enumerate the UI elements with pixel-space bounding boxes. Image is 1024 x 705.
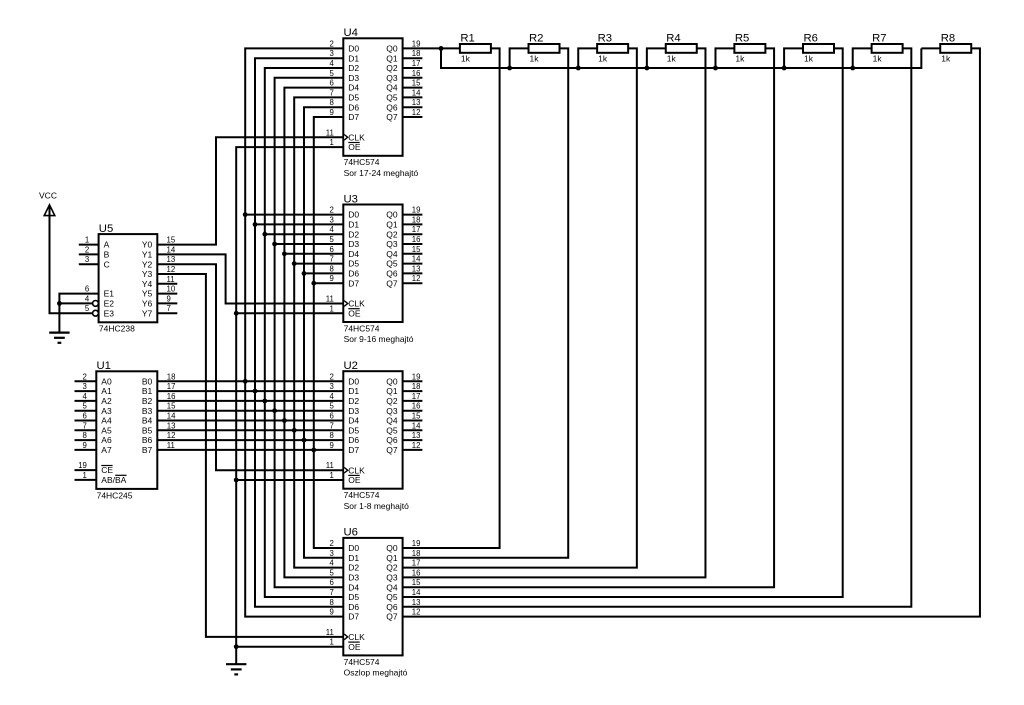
svg-text:Sor 17-24 meghajtó: Sor 17-24 meghajtó bbox=[344, 168, 419, 178]
svg-text:9: 9 bbox=[330, 441, 334, 450]
svg-text:Y1: Y1 bbox=[142, 250, 153, 260]
svg-text:14: 14 bbox=[412, 588, 421, 597]
svg-text:Y2: Y2 bbox=[142, 259, 153, 269]
wire U1.B1 to U2.D1 bbox=[157, 390, 343, 392]
U1 pin 8 (A6) stub, name and number bbox=[75, 439, 97, 441]
svg-text:16: 16 bbox=[412, 235, 421, 244]
svg-text:17: 17 bbox=[412, 392, 421, 401]
svg-text:11: 11 bbox=[326, 628, 334, 637]
svg-text:12: 12 bbox=[412, 441, 421, 450]
svg-text:D4: D4 bbox=[348, 249, 359, 259]
wire U5.Y0 to U4.CLK bbox=[157, 137, 343, 244]
svg-text:2: 2 bbox=[330, 39, 334, 48]
svg-text:19: 19 bbox=[78, 461, 87, 470]
svg-text:15: 15 bbox=[167, 236, 176, 245]
svg-text:8: 8 bbox=[330, 98, 334, 107]
svg-text:Y0: Y0 bbox=[142, 240, 153, 250]
resistor R4 body bbox=[666, 44, 697, 53]
wire VCC to U5.E3 bbox=[50, 206, 93, 313]
svg-text:R1: R1 bbox=[460, 33, 474, 45]
svg-text:17: 17 bbox=[167, 382, 176, 391]
svg-text:13: 13 bbox=[412, 98, 421, 107]
junction net D7 at U3.D7 bbox=[311, 281, 316, 286]
wire bus stub to R4 bbox=[647, 48, 666, 68]
svg-text:4: 4 bbox=[85, 294, 90, 303]
svg-text:Q1: Q1 bbox=[386, 386, 398, 396]
svg-text:13: 13 bbox=[167, 255, 176, 264]
junction net D4 at U1.B4 bbox=[282, 418, 287, 423]
svg-text:U5: U5 bbox=[99, 223, 113, 235]
junction net D2 at U3.D2 bbox=[262, 232, 267, 237]
U1 pin 7 (A5) stub, name and number bbox=[75, 429, 97, 431]
wire U3.D6 tap bbox=[304, 272, 343, 274]
wire U1.B4 to U2.D4 bbox=[157, 420, 343, 422]
svg-text:1k: 1k bbox=[804, 53, 814, 63]
U5 E2 inversion bubble bbox=[93, 301, 99, 307]
svg-text:19: 19 bbox=[412, 39, 421, 48]
svg-text:D3: D3 bbox=[348, 239, 359, 249]
svg-text:D2: D2 bbox=[348, 63, 359, 73]
svg-text:Q7: Q7 bbox=[386, 445, 398, 455]
svg-text:CE: CE bbox=[101, 465, 113, 475]
wire U1.B3 to U2.D3 bbox=[157, 410, 343, 412]
svg-text:A: A bbox=[104, 240, 110, 250]
U2 Q2 stub bbox=[403, 400, 423, 402]
wire U1.B0 to U2.D0 bbox=[157, 380, 343, 382]
svg-text:U2: U2 bbox=[344, 360, 358, 372]
svg-text:12: 12 bbox=[412, 274, 421, 283]
svg-text:9: 9 bbox=[330, 274, 334, 283]
svg-text:4: 4 bbox=[330, 392, 335, 401]
net D0 wire U4.D0 - bus vertical - U6.D7 bbox=[245, 48, 343, 616]
svg-text:B6: B6 bbox=[142, 435, 153, 445]
junction net D4 at U3.D4 bbox=[282, 251, 287, 256]
svg-text:19: 19 bbox=[412, 372, 421, 381]
svg-text:19: 19 bbox=[412, 206, 421, 215]
wire U3.D3 tap bbox=[275, 243, 344, 245]
U2 Q7 stub bbox=[403, 449, 423, 451]
svg-text:5: 5 bbox=[330, 568, 335, 577]
U3 Q7 stub bbox=[403, 282, 423, 284]
wire U1.B7 to U2.D7 bbox=[157, 449, 343, 451]
wire R8 to U6.Q7 bbox=[403, 48, 980, 616]
wire U3.OE bbox=[236, 312, 343, 314]
svg-text:D0: D0 bbox=[348, 210, 359, 220]
svg-text:1k: 1k bbox=[873, 53, 883, 63]
junction net D0 at U1.B0 bbox=[243, 379, 248, 384]
U5 Y7 stub bbox=[157, 312, 177, 314]
U4 Q3 stub bbox=[403, 77, 423, 79]
svg-text:D4: D4 bbox=[348, 416, 359, 426]
svg-text:1: 1 bbox=[330, 304, 334, 313]
svg-text:15: 15 bbox=[412, 412, 421, 421]
svg-text:3: 3 bbox=[330, 49, 334, 58]
svg-text:1: 1 bbox=[85, 236, 89, 245]
U4 Q7 stub bbox=[403, 116, 423, 118]
svg-text:13: 13 bbox=[167, 421, 176, 430]
wire U1.B6 to U2.D6 bbox=[157, 439, 343, 441]
svg-text:18: 18 bbox=[412, 215, 421, 224]
svg-text:9: 9 bbox=[167, 294, 171, 303]
svg-text:Q0: Q0 bbox=[386, 376, 398, 386]
resistor R2 body bbox=[529, 44, 560, 53]
wire R2 to U6.Q1 bbox=[403, 48, 569, 557]
svg-text:3: 3 bbox=[330, 382, 334, 391]
svg-text:D5: D5 bbox=[348, 425, 359, 435]
svg-text:18: 18 bbox=[412, 49, 421, 58]
svg-text:E3: E3 bbox=[104, 308, 115, 318]
junction bus / R5 bbox=[713, 66, 718, 71]
svg-text:11: 11 bbox=[167, 275, 175, 284]
U1 pin 6 (A4) stub, name and number bbox=[75, 420, 97, 422]
svg-text:6: 6 bbox=[85, 285, 89, 294]
svg-text:16: 16 bbox=[412, 568, 421, 577]
svg-text:Y7: Y7 bbox=[142, 308, 153, 318]
svg-text:74HC574: 74HC574 bbox=[344, 323, 380, 333]
ground symbol (U5 enables) bbox=[49, 332, 69, 334]
svg-text:Y3: Y3 bbox=[142, 269, 153, 279]
wire U5.E1 to ground net bbox=[59, 294, 98, 333]
svg-text:Q4: Q4 bbox=[386, 249, 398, 259]
resistor R8 body bbox=[940, 44, 971, 53]
resistor R6 body bbox=[803, 44, 834, 53]
U5 pin 3 (C) stub, name and number bbox=[79, 263, 99, 265]
svg-text:D2: D2 bbox=[348, 396, 359, 406]
junction Q0 / resistor common bus bbox=[439, 46, 444, 51]
U1 pin 3 (A1) stub, name and number bbox=[75, 390, 97, 392]
wire bus stub to R2 bbox=[510, 48, 529, 68]
svg-text:A6: A6 bbox=[101, 435, 112, 445]
svg-text:14: 14 bbox=[412, 88, 421, 97]
svg-text:Y5: Y5 bbox=[142, 289, 153, 299]
IC U2 74HC574 body bbox=[343, 371, 402, 489]
junction bus / R7 bbox=[850, 66, 855, 71]
svg-text:19: 19 bbox=[412, 539, 421, 548]
IC U6 74HC574 body bbox=[343, 538, 402, 656]
U1 pin 4 (A2) stub, name and number bbox=[75, 400, 97, 402]
svg-text:D1: D1 bbox=[348, 220, 359, 230]
svg-text:7: 7 bbox=[330, 421, 334, 430]
svg-text:16: 16 bbox=[412, 69, 421, 78]
U2 Q1 stub bbox=[403, 390, 423, 392]
wire bus corner to R8 bbox=[921, 47, 940, 49]
wire R4 to U6.Q3 bbox=[403, 48, 706, 577]
svg-text:Q2: Q2 bbox=[386, 229, 398, 239]
svg-text:4: 4 bbox=[330, 559, 335, 568]
U2 Q0 stub bbox=[403, 380, 423, 382]
svg-text:1k: 1k bbox=[461, 53, 471, 63]
svg-text:D3: D3 bbox=[348, 73, 359, 83]
wire U2.OE bbox=[236, 479, 343, 481]
svg-text:D5: D5 bbox=[348, 93, 359, 103]
junction net D0 at U3.D0 bbox=[243, 212, 248, 217]
svg-text:Q1: Q1 bbox=[386, 553, 398, 563]
U2 Q5 stub bbox=[403, 429, 423, 431]
wire U4.Q0 to R1 bbox=[403, 47, 460, 49]
svg-text:CLK: CLK bbox=[348, 632, 365, 642]
svg-text:5: 5 bbox=[85, 304, 90, 313]
svg-text:D2: D2 bbox=[348, 229, 359, 239]
svg-text:Q7: Q7 bbox=[386, 112, 398, 122]
svg-text:R5: R5 bbox=[735, 33, 749, 45]
wire bus stub to R6 bbox=[784, 48, 803, 68]
svg-text:A4: A4 bbox=[101, 416, 112, 426]
svg-text:17: 17 bbox=[412, 59, 421, 68]
svg-text:6: 6 bbox=[83, 412, 87, 421]
U5 pin 1 (A) stub, name and number bbox=[79, 244, 99, 246]
svg-text:B3: B3 bbox=[142, 406, 153, 416]
svg-text:C: C bbox=[104, 259, 110, 269]
svg-text:CLK: CLK bbox=[348, 132, 365, 142]
IC U4 74HC574 body bbox=[343, 38, 402, 156]
svg-text:D5: D5 bbox=[348, 259, 359, 269]
svg-text:Q0: Q0 bbox=[386, 543, 398, 553]
svg-text:11: 11 bbox=[167, 441, 175, 450]
svg-text:Oszlop meghajtó: Oszlop meghajtó bbox=[344, 668, 408, 678]
svg-text:Q1: Q1 bbox=[386, 53, 398, 63]
svg-text:D5: D5 bbox=[348, 592, 359, 602]
svg-text:11: 11 bbox=[326, 128, 334, 137]
svg-text:8: 8 bbox=[83, 431, 87, 440]
svg-text:2: 2 bbox=[330, 539, 334, 548]
U1 pin 5 (A3) stub, name and number bbox=[75, 410, 97, 412]
net D2 wire U4.D2 - bus vertical - U6.D5 bbox=[265, 68, 344, 597]
svg-text:17: 17 bbox=[412, 559, 421, 568]
svg-text:VCC: VCC bbox=[39, 190, 57, 200]
svg-text:6: 6 bbox=[330, 245, 334, 254]
svg-text:Q0: Q0 bbox=[386, 44, 398, 54]
svg-text:13: 13 bbox=[412, 264, 421, 273]
U3 Q4 stub bbox=[403, 253, 423, 255]
svg-text:D7: D7 bbox=[348, 278, 359, 288]
svg-text:R6: R6 bbox=[804, 33, 818, 45]
svg-text:R3: R3 bbox=[598, 33, 612, 45]
wire U5.Y1 to U3.CLK bbox=[157, 254, 343, 303]
svg-text:OE: OE bbox=[348, 308, 361, 318]
net D7 wire U4.D7 - bus vertical - U6.D0 bbox=[314, 117, 344, 548]
wire R7 to U6.Q6 bbox=[403, 48, 912, 606]
junction /OE at U3.OE bbox=[234, 311, 239, 316]
svg-text:2: 2 bbox=[83, 372, 87, 381]
junction net D3 at U1.B3 bbox=[272, 408, 277, 413]
svg-text:R4: R4 bbox=[666, 33, 680, 45]
svg-text:D1: D1 bbox=[348, 553, 359, 563]
svg-text:OE: OE bbox=[348, 475, 361, 485]
wire U5.E2 to ground net bbox=[59, 302, 92, 304]
U5 Y4 stub bbox=[157, 283, 177, 285]
svg-text:3: 3 bbox=[85, 255, 89, 264]
svg-text:CLK: CLK bbox=[348, 299, 365, 309]
junction net D6 at U3.D6 bbox=[302, 271, 307, 276]
U1 pin 1 (AB/BA) stub, name and number bbox=[75, 479, 97, 481]
wire U3.D2 tap bbox=[265, 233, 344, 235]
svg-text:3: 3 bbox=[330, 215, 334, 224]
wire bus stub to R7 bbox=[853, 48, 872, 68]
U4 Q6 stub bbox=[403, 106, 423, 108]
svg-text:U6: U6 bbox=[344, 527, 358, 539]
svg-text:2: 2 bbox=[330, 206, 334, 215]
svg-text:6: 6 bbox=[330, 578, 334, 587]
U5 E3 inversion bubble bbox=[93, 310, 99, 316]
svg-text:D1: D1 bbox=[348, 53, 359, 63]
U5 Y5 stub bbox=[157, 293, 177, 295]
svg-text:12: 12 bbox=[412, 108, 421, 117]
svg-text:B1: B1 bbox=[142, 386, 153, 396]
junction net D6 at U1.B6 bbox=[302, 438, 307, 443]
U2 Q4 stub bbox=[403, 420, 423, 422]
svg-text:A0: A0 bbox=[101, 376, 112, 386]
wire U3.D7 tap bbox=[314, 282, 344, 284]
svg-text:4: 4 bbox=[330, 225, 335, 234]
svg-text:74HC574: 74HC574 bbox=[344, 657, 380, 667]
svg-text:OE: OE bbox=[348, 642, 361, 652]
svg-text:R2: R2 bbox=[529, 33, 543, 45]
U5 Y6 stub bbox=[157, 302, 177, 304]
svg-text:5: 5 bbox=[330, 69, 335, 78]
svg-text:1k: 1k bbox=[598, 53, 608, 63]
wire R6 to U6.Q5 bbox=[403, 48, 843, 597]
svg-text:B5: B5 bbox=[142, 425, 153, 435]
svg-text:8: 8 bbox=[330, 598, 334, 607]
svg-text:D4: D4 bbox=[348, 83, 359, 93]
svg-text:11: 11 bbox=[326, 461, 334, 470]
junction bus / R4 bbox=[644, 66, 649, 71]
svg-text:1: 1 bbox=[330, 638, 334, 647]
U5 pin 2 (B) stub, name and number bbox=[79, 253, 99, 255]
U3 Q3 stub bbox=[403, 243, 423, 245]
resistor R7 body bbox=[872, 44, 903, 53]
svg-text:D4: D4 bbox=[348, 582, 359, 592]
wire R3 to U6.Q2 bbox=[403, 48, 637, 567]
svg-text:9: 9 bbox=[83, 441, 87, 450]
junction net D2 at U1.B2 bbox=[262, 399, 267, 404]
svg-text:D7: D7 bbox=[348, 112, 359, 122]
svg-text:11: 11 bbox=[326, 295, 334, 304]
wire U1.B5 to U2.D5 bbox=[157, 429, 343, 431]
svg-text:4: 4 bbox=[330, 59, 335, 68]
svg-text:A1: A1 bbox=[101, 386, 112, 396]
svg-text:18: 18 bbox=[412, 549, 421, 558]
U2 Q6 stub bbox=[403, 439, 423, 441]
wire U5.Y3 to U6.CLK bbox=[157, 274, 343, 637]
U3 Q5 stub bbox=[403, 263, 423, 265]
net D3 wire U4.D3 - bus vertical - U6.D4 bbox=[275, 78, 344, 587]
wire U6.OE bbox=[236, 646, 343, 648]
svg-text:Q4: Q4 bbox=[386, 83, 398, 93]
junction /OE at U2.OE bbox=[234, 478, 239, 483]
svg-text:Sor 9-16 meghajtó: Sor 9-16 meghajtó bbox=[344, 334, 414, 344]
svg-text:15: 15 bbox=[412, 578, 421, 587]
junction bus / R2 bbox=[507, 66, 512, 71]
svg-text:16: 16 bbox=[412, 402, 421, 411]
svg-text:U4: U4 bbox=[344, 27, 358, 39]
svg-text:13: 13 bbox=[412, 598, 421, 607]
svg-text:Q5: Q5 bbox=[386, 592, 398, 602]
svg-text:5: 5 bbox=[330, 235, 335, 244]
svg-text:U1: U1 bbox=[97, 360, 111, 372]
wire R5 to U6.Q4 bbox=[403, 48, 774, 587]
svg-text:14: 14 bbox=[412, 421, 421, 430]
svg-text:Q3: Q3 bbox=[386, 73, 398, 83]
U3 Q1 stub bbox=[403, 223, 423, 225]
wire U3.D1 tap bbox=[255, 223, 343, 225]
svg-text:15: 15 bbox=[167, 402, 176, 411]
svg-text:16: 16 bbox=[167, 392, 176, 401]
svg-text:9: 9 bbox=[330, 608, 334, 617]
svg-text:B: B bbox=[104, 250, 110, 260]
svg-text:D0: D0 bbox=[348, 543, 359, 553]
svg-text:D1: D1 bbox=[348, 386, 359, 396]
svg-text:Q2: Q2 bbox=[386, 396, 398, 406]
U4 Q1 stub bbox=[403, 57, 423, 59]
svg-text:74HC245: 74HC245 bbox=[97, 490, 133, 500]
junction net D7 at U1.B7 bbox=[311, 448, 316, 453]
junction net D5 at U3.D5 bbox=[292, 261, 297, 266]
svg-text:1: 1 bbox=[83, 471, 87, 480]
svg-text:12: 12 bbox=[167, 431, 176, 440]
svg-text:Q3: Q3 bbox=[386, 573, 398, 583]
svg-text:Q6: Q6 bbox=[386, 602, 398, 612]
svg-text:Q7: Q7 bbox=[386, 612, 398, 622]
svg-text:Q6: Q6 bbox=[386, 435, 398, 445]
svg-text:R7: R7 bbox=[872, 33, 886, 45]
svg-text:R8: R8 bbox=[941, 33, 955, 45]
svg-text:E1: E1 bbox=[104, 289, 115, 299]
svg-text:A3: A3 bbox=[101, 406, 112, 416]
svg-text:Q1: Q1 bbox=[386, 220, 398, 230]
svg-text:14: 14 bbox=[167, 412, 176, 421]
svg-text:7: 7 bbox=[83, 421, 87, 430]
U1 pin 19 (CE, active low) stub, name and number bbox=[75, 469, 97, 471]
svg-text:12: 12 bbox=[167, 265, 176, 274]
U4 Q2 stub bbox=[403, 67, 423, 69]
svg-text:1k: 1k bbox=[530, 53, 540, 63]
svg-text:74HC574: 74HC574 bbox=[344, 157, 380, 167]
svg-text:D0: D0 bbox=[348, 44, 359, 54]
svg-text:8: 8 bbox=[330, 431, 334, 440]
U4 Q5 stub bbox=[403, 96, 423, 98]
svg-text:U3: U3 bbox=[344, 193, 358, 205]
svg-text:Q5: Q5 bbox=[386, 259, 398, 269]
svg-text:Y6: Y6 bbox=[142, 299, 153, 309]
svg-text:Q6: Q6 bbox=[386, 269, 398, 279]
svg-text:Q4: Q4 bbox=[386, 582, 398, 592]
svg-text:Q2: Q2 bbox=[386, 63, 398, 73]
wire U3.D4 tap bbox=[284, 253, 343, 255]
resistor R3 body bbox=[597, 44, 628, 53]
svg-text:2: 2 bbox=[330, 372, 334, 381]
IC U1 74HC245 body bbox=[96, 371, 157, 489]
junction bus / R6 bbox=[782, 66, 787, 71]
svg-text:3: 3 bbox=[83, 382, 87, 391]
svg-text:9: 9 bbox=[330, 108, 334, 117]
svg-text:D7: D7 bbox=[348, 612, 359, 622]
svg-text:Q4: Q4 bbox=[386, 416, 398, 426]
svg-text:1k: 1k bbox=[941, 53, 951, 63]
resistor common bus wire bbox=[441, 48, 921, 68]
svg-text:1: 1 bbox=[330, 471, 334, 480]
svg-text:B7: B7 bbox=[142, 445, 153, 455]
U2 Q3 stub bbox=[403, 410, 423, 412]
svg-text:Sor 1-8 meghajtó: Sor 1-8 meghajtó bbox=[344, 501, 409, 511]
svg-text:12: 12 bbox=[412, 608, 421, 617]
junction bus / R3 bbox=[576, 66, 581, 71]
svg-text:17: 17 bbox=[412, 225, 421, 234]
wire bus stub to R3 bbox=[578, 48, 597, 68]
svg-text:Q6: Q6 bbox=[386, 102, 398, 112]
svg-text:Q3: Q3 bbox=[386, 406, 398, 416]
svg-text:D3: D3 bbox=[348, 406, 359, 416]
